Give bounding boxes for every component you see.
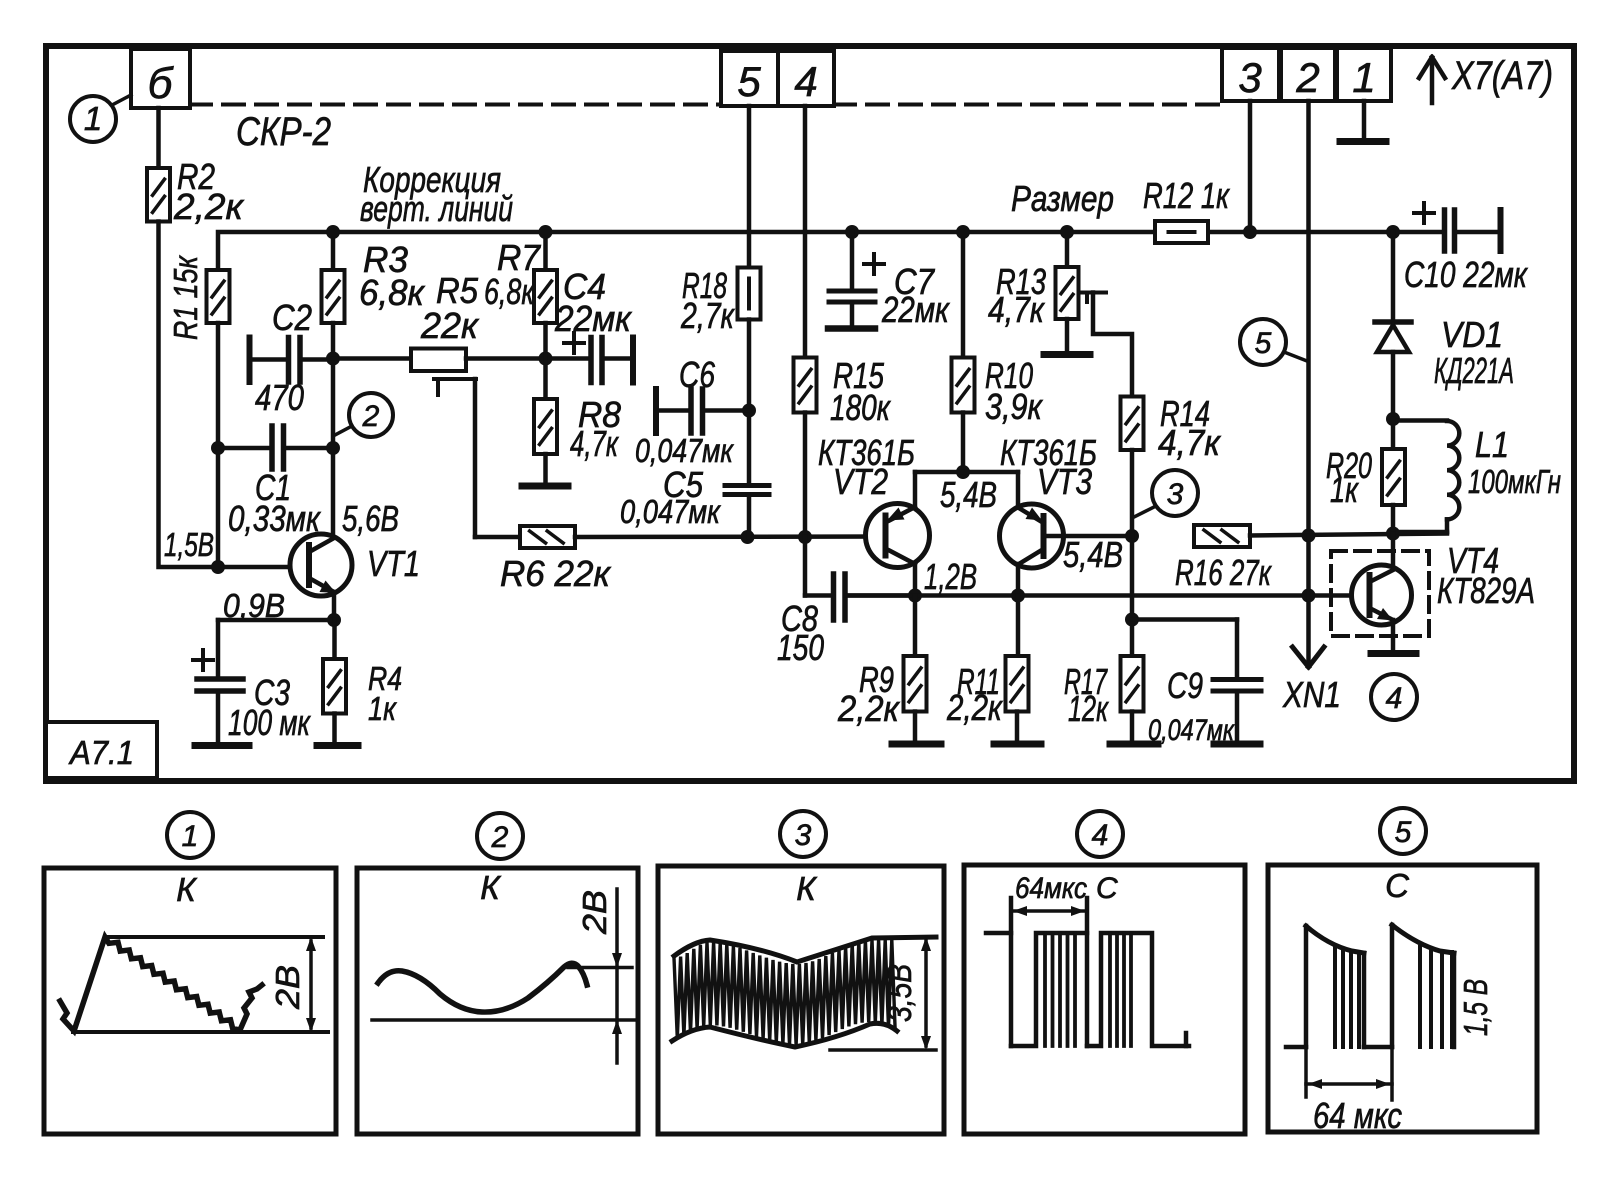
ground under C3	[195, 742, 249, 749]
svg-text:6,8к: 6,8к	[484, 271, 535, 312]
svg-text:L1: L1	[1475, 424, 1509, 465]
connector pin 3	[1222, 48, 1279, 101]
svg-text:4,7к: 4,7к	[570, 423, 619, 464]
inductor L1	[1393, 418, 1447, 423]
wire pin 3 to bus	[1248, 101, 1253, 232]
connector pin б	[131, 49, 190, 108]
svg-text:4: 4	[794, 58, 817, 105]
svg-text:3: 3	[1238, 54, 1261, 101]
svg-text:VT2: VT2	[833, 461, 888, 502]
VT2 collector wire	[913, 563, 918, 596]
svg-text:1: 1	[84, 100, 102, 137]
svg-text:22к: 22к	[420, 305, 480, 346]
svg-text:СКР-2: СКР-2	[236, 110, 331, 154]
VT4 emitter ground	[1391, 620, 1396, 650]
resistor R12	[1155, 221, 1208, 243]
wire pin 5 down	[747, 106, 752, 268]
svg-text:1,5В: 1,5В	[164, 526, 214, 563]
waveform panel 1 box	[44, 868, 336, 1134]
svg-text:б: б	[148, 59, 175, 108]
svg-text:верт. линий: верт. линий	[360, 188, 513, 229]
panel 2 reference lines and dimension 2В	[372, 1018, 636, 1022]
panel 3 burst waveform	[674, 940, 895, 1045]
VT1 emitter wire	[332, 592, 337, 620]
resistor R4	[332, 620, 337, 659]
svg-text:1к: 1к	[1330, 469, 1360, 510]
wire R10 to emitters bracket	[961, 413, 966, 473]
ground under C7	[828, 325, 875, 332]
diode VD1	[1391, 232, 1396, 322]
R5 wiper wire	[434, 377, 476, 381]
capacitor C4	[564, 341, 584, 345]
connector X7(A7) arrow	[1430, 60, 1435, 103]
main top bus wire	[218, 232, 1155, 270]
svg-text:5,4В: 5,4В	[1063, 534, 1123, 575]
capacitor C5	[725, 483, 769, 488]
svg-text:XN1: XN1	[1282, 674, 1341, 715]
waveform panel 2 circle	[477, 813, 523, 859]
svg-text:3: 3	[1167, 478, 1184, 511]
panel 4 pulse waveform	[986, 931, 1011, 936]
svg-text:2,2к: 2,2к	[837, 688, 901, 729]
svg-text:4,7к: 4,7к	[1158, 422, 1222, 463]
svg-text:2,2к: 2,2к	[946, 687, 1003, 728]
resistor R14	[1121, 397, 1144, 451]
connector pin 2	[1281, 48, 1335, 101]
svg-text:3,5В: 3,5В	[881, 964, 918, 1022]
capacitor C6	[653, 389, 659, 433]
resistor R16	[1194, 525, 1250, 547]
waveform panel 3 circle	[780, 811, 826, 857]
node label circle 5	[1240, 319, 1286, 365]
panel 5 dimension 64 мкс	[1304, 1047, 1308, 1097]
svg-text:150: 150	[777, 627, 824, 668]
wire R14 to VT3 base node	[1130, 450, 1135, 536]
trimmer R13	[1056, 267, 1079, 319]
svg-text:R16 27к: R16 27к	[1175, 552, 1272, 593]
transistor VT2	[866, 504, 930, 568]
VT3 base wire	[1044, 534, 1132, 539]
capacitor C8	[803, 537, 808, 596]
svg-text:2: 2	[1295, 54, 1319, 101]
capacitor C3	[216, 620, 221, 676]
resistor R11	[1016, 596, 1021, 657]
svg-text:1к: 1к	[368, 690, 397, 727]
node label circle 3	[1152, 470, 1198, 516]
wire pin 2 down / XN1	[1306, 101, 1311, 536]
svg-text:R6 22к: R6 22к	[500, 553, 612, 594]
ground under C9	[1214, 741, 1260, 748]
capacitor C7	[845, 225, 859, 239]
svg-text:5: 5	[1395, 816, 1412, 849]
VT4 dashed box	[1331, 551, 1429, 636]
trimmer R5	[411, 349, 466, 372]
svg-text:С: С	[1385, 867, 1410, 904]
resistor R15	[794, 358, 817, 413]
resistor R10	[952, 358, 975, 413]
wire XN1 arrow	[1306, 536, 1311, 666]
wire pin 4 down to R15	[803, 106, 808, 358]
resistor R18	[738, 268, 761, 320]
waveform panel 3 box	[658, 866, 944, 1134]
svg-text:VT3: VT3	[1037, 461, 1092, 502]
svg-text:КД221А: КД221А	[1434, 350, 1514, 391]
panel 4 dimension 64мкс	[1011, 909, 1087, 913]
capacitor C1	[218, 446, 269, 451]
wire C2 node to R5	[333, 356, 411, 361]
svg-text:С10 22мк: С10 22мк	[1404, 254, 1529, 295]
svg-text:С6: С6	[679, 354, 716, 395]
svg-text:2В: 2В	[269, 965, 306, 1010]
svg-text:Размер: Размер	[1011, 178, 1114, 219]
svg-text:VT1: VT1	[367, 543, 420, 584]
svg-text:22мк: 22мк	[881, 289, 950, 330]
waveform panel 4 box	[964, 865, 1245, 1134]
resistor R20	[1391, 419, 1396, 449]
svg-text:2,7к: 2,7к	[680, 295, 735, 336]
connector pin 1	[1337, 48, 1391, 101]
svg-text:К: К	[176, 871, 197, 908]
svg-text:1: 1	[182, 820, 199, 853]
svg-text:6,8к: 6,8к	[359, 272, 426, 313]
svg-text:4,7к: 4,7к	[988, 289, 1046, 330]
svg-text:64мкс: 64мкс	[1015, 872, 1087, 905]
svg-text:С9: С9	[1167, 665, 1203, 706]
svg-text:2,2к: 2,2к	[173, 186, 245, 227]
transistor VT1	[290, 534, 352, 596]
R13 wiper wire	[1079, 291, 1106, 295]
svg-text:3,9к: 3,9к	[985, 386, 1044, 427]
panel 2 sine waveform	[378, 963, 587, 1012]
resistor R6	[520, 526, 575, 548]
svg-text:2: 2	[491, 821, 509, 854]
label А7.1 box	[46, 722, 157, 778]
VT3 collector wire	[1016, 564, 1021, 596]
wire collector VT4	[1391, 534, 1396, 572]
waveform panel 1 circle	[167, 812, 213, 858]
waveform panel 5 box	[1268, 865, 1537, 1132]
svg-text:0,33мк: 0,33мк	[228, 498, 322, 539]
resistor R7	[543, 232, 548, 270]
resistor R3 with wires	[331, 232, 336, 270]
module boundary dashed line	[190, 103, 721, 107]
svg-text:1,2В: 1,2В	[924, 556, 977, 597]
svg-text:5,6В: 5,6В	[342, 498, 399, 539]
svg-text:100мкГн: 100мкГн	[1468, 463, 1561, 500]
svg-text:5: 5	[737, 58, 761, 105]
resistor R2	[147, 168, 170, 222]
wire R5 to C4	[466, 356, 588, 361]
wire R2 to VT1 base	[159, 222, 310, 568]
svg-text:4: 4	[1092, 819, 1109, 852]
ground under R8	[543, 454, 548, 484]
svg-text:0,047мк: 0,047мк	[1148, 714, 1235, 747]
svg-text:VD1: VD1	[1441, 314, 1503, 355]
svg-text:КТ829А: КТ829А	[1437, 570, 1535, 611]
svg-text:22мк: 22мк	[554, 298, 633, 339]
wire R18 to C5	[747, 320, 752, 484]
svg-text:3: 3	[795, 819, 812, 852]
capacitor C10	[1386, 225, 1400, 239]
ground under R13	[1065, 319, 1070, 351]
wire pin б to R2	[156, 108, 161, 168]
wire R7-R8	[543, 323, 548, 399]
svg-text:R12 1к: R12 1к	[1143, 175, 1231, 216]
wire R1 to C1/base junction	[216, 323, 221, 567]
svg-text:С2: С2	[272, 297, 312, 338]
node label circle 1	[70, 96, 116, 142]
svg-text:2: 2	[362, 400, 380, 433]
resistor R17	[1130, 536, 1135, 656]
svg-text:12к: 12к	[1068, 688, 1109, 729]
panel 3 dimension 3,5В	[830, 1048, 936, 1052]
svg-text:180к: 180к	[830, 387, 892, 428]
wire bus to R10	[961, 232, 966, 358]
waveform panel 4 circle	[1077, 811, 1123, 857]
panel 1 sawtooth waveform	[60, 937, 262, 1031]
ground under R4	[317, 742, 358, 749]
svg-text:2В: 2В	[576, 890, 613, 935]
transistor VT4	[1352, 565, 1412, 625]
svg-text:5,4В: 5,4В	[940, 474, 997, 515]
emitter bus wire	[847, 593, 1370, 598]
waveform panel 5 circle	[1380, 808, 1426, 854]
wire bus to R13	[1065, 232, 1070, 267]
connector pin 5	[721, 51, 778, 106]
resistor R8	[534, 399, 557, 454]
panel 1 reference lines and dimension 2В	[105, 935, 323, 939]
svg-text:К: К	[480, 869, 501, 906]
node label circle 4	[1371, 674, 1417, 720]
ground under R17	[1110, 741, 1158, 748]
panel 5 decaying pulse waveform	[1286, 1045, 1306, 1050]
connector pin 4	[778, 51, 834, 106]
svg-text:100 мк: 100 мк	[228, 702, 311, 743]
svg-text:К: К	[796, 870, 817, 907]
node label circle 2	[349, 393, 393, 437]
wire pin1 ground	[1362, 101, 1367, 139]
svg-text:X7(А7): X7(А7)	[1451, 54, 1553, 98]
ground under R11	[994, 741, 1041, 748]
capacitor C9	[1132, 617, 1237, 622]
capacitor C2	[247, 338, 253, 383]
svg-text:4: 4	[1386, 682, 1403, 715]
svg-text:5: 5	[1255, 327, 1272, 360]
svg-text:0,047мк: 0,047мк	[620, 493, 721, 530]
svg-text:470: 470	[255, 377, 304, 418]
svg-text:R1 15к: R1 15к	[167, 255, 204, 340]
ground under R9	[892, 741, 941, 748]
svg-text:1: 1	[1352, 54, 1375, 101]
resistor R1	[207, 270, 230, 323]
waveform panel 2 box	[357, 868, 638, 1134]
svg-text:А7.1: А7.1	[68, 734, 134, 771]
svg-text:С: С	[1096, 872, 1118, 905]
svg-text:1,5 В: 1,5 В	[1457, 979, 1494, 1036]
transistor VT3	[1000, 504, 1064, 568]
svg-text:64 мкс: 64 мкс	[1313, 1095, 1402, 1136]
resistor R9	[913, 596, 918, 657]
wire R5 wiper to R6 to VT2 base	[475, 535, 520, 540]
